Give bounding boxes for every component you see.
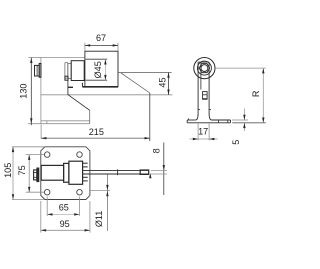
arrow 67 left xyxy=(85,44,90,46)
arrow o45 bottom xyxy=(104,75,106,80)
arrow 130 top xyxy=(30,58,32,63)
rod collar xyxy=(140,170,149,174)
gusset diagonal xyxy=(68,95,90,111)
dim 5 / R ext bottom xyxy=(232,122,266,124)
arrow 65 left xyxy=(47,213,52,215)
dim 75 ext top xyxy=(26,154,44,156)
dim 75 line xyxy=(28,155,30,193)
base end left xyxy=(186,120,188,123)
plate top edge xyxy=(41,56,85,58)
arm stub 4 xyxy=(83,180,88,182)
svg-text:8: 8 xyxy=(152,148,162,153)
arm stub 1 xyxy=(83,162,88,164)
dim o45 line xyxy=(104,59,106,80)
dim 215 line xyxy=(41,137,150,139)
dim 215/8 shared ext vertical xyxy=(149,93,151,141)
base top right xyxy=(212,119,231,121)
dim 8 line xyxy=(163,143,165,196)
arm edge b thick xyxy=(68,86,73,88)
flange side xyxy=(65,63,68,79)
dim 130 ext top xyxy=(28,56,41,58)
dim 5 ext top xyxy=(232,119,248,121)
dim 65 ext right xyxy=(79,197,81,216)
fork top chord xyxy=(198,61,209,63)
housing side xyxy=(85,51,118,87)
dim 5 line bottom xyxy=(243,123,245,131)
svg-text:65: 65 xyxy=(59,203,69,213)
base top xyxy=(41,120,90,122)
bolt head flat line 2 xyxy=(34,176,37,178)
dim R line xyxy=(262,68,264,123)
arrow 65 right xyxy=(74,213,79,215)
arrow 130 bottom xyxy=(30,118,32,123)
plate left edge xyxy=(40,57,42,123)
hole TR xyxy=(77,152,83,158)
arrow o11 down xyxy=(106,185,108,190)
dim 95 ext right xyxy=(89,201,91,233)
bolt head side xyxy=(35,65,40,76)
arrow 215 left xyxy=(41,137,46,139)
roller middle circle xyxy=(197,61,211,75)
svg-text:R: R xyxy=(251,90,261,97)
roller top view xyxy=(69,161,83,184)
dim 105 ext bottom xyxy=(12,199,44,201)
dim 215 ext left xyxy=(40,125,42,139)
dim 8 ext upper xyxy=(151,169,167,171)
base top left xyxy=(187,119,196,121)
arm vertical xyxy=(67,80,69,95)
arrow 95 left xyxy=(41,229,46,231)
arrow 45 bottom xyxy=(167,90,169,95)
svg-text:Ø45: Ø45 xyxy=(93,61,103,78)
washer side xyxy=(39,64,41,78)
dim 130 line xyxy=(30,58,32,126)
base end tick left xyxy=(188,118,190,120)
rod top line xyxy=(83,169,149,171)
dim 95 ext left xyxy=(40,201,42,233)
dim 17 line xyxy=(190,138,218,140)
dim 95 line xyxy=(41,229,90,231)
bolt head top view xyxy=(34,170,37,180)
tab side xyxy=(65,76,68,80)
dim o45 tick top xyxy=(86,58,108,60)
arrow 215 right xyxy=(145,137,150,139)
arrow 45 top xyxy=(167,73,169,78)
base hole tick xyxy=(46,121,48,124)
arrow 75 top xyxy=(28,155,30,160)
housing bottom thick xyxy=(82,86,118,88)
dim 67 line xyxy=(85,44,118,46)
dim 105 line xyxy=(12,147,14,200)
svg-text:5: 5 xyxy=(231,140,241,145)
dim 67 ext right xyxy=(117,43,119,51)
fillet tick right xyxy=(209,108,211,110)
fork inner line xyxy=(200,62,202,89)
mid flange top view xyxy=(64,163,69,182)
svg-text:215: 215 xyxy=(89,127,104,137)
svg-text:130: 130 xyxy=(18,84,28,99)
arrow 105 top xyxy=(12,147,14,152)
neck side xyxy=(68,63,71,78)
svg-text:95: 95 xyxy=(60,219,70,229)
svg-text:17: 17 xyxy=(198,127,208,137)
hole TL xyxy=(44,152,50,158)
svg-text:Ø11: Ø11 xyxy=(94,211,104,228)
arrow 105 bottom xyxy=(12,194,14,199)
dim 17 ext right xyxy=(208,124,210,141)
fillet right xyxy=(209,114,211,120)
roller inner circle xyxy=(201,65,208,72)
hole BL xyxy=(44,189,50,195)
dim 5 line top xyxy=(243,109,245,121)
roller outer circle xyxy=(194,58,215,79)
arm step vertical xyxy=(81,83,83,87)
hex bore xyxy=(199,64,209,73)
gusset right edge xyxy=(89,110,91,123)
base tick b xyxy=(227,120,229,123)
dim 65 line xyxy=(47,213,79,215)
arrow o11 up xyxy=(106,191,108,196)
arrow 95 right xyxy=(85,229,90,231)
dim 17 ext left xyxy=(197,124,199,141)
bolt head inner line xyxy=(36,65,38,76)
washer top view xyxy=(37,168,39,182)
svg-text:67: 67 xyxy=(96,33,106,43)
tube body top view xyxy=(41,165,63,180)
arrow 75 bottom xyxy=(28,187,30,192)
fork left edge xyxy=(197,62,199,114)
fillet tick left xyxy=(198,108,200,110)
hole BR xyxy=(77,189,83,195)
rod bent diagonal xyxy=(121,73,150,93)
arm stub 2 xyxy=(83,166,88,168)
base end right xyxy=(230,120,232,123)
plate outline xyxy=(41,147,90,200)
dim R ext top xyxy=(215,67,266,69)
arrow 5 top xyxy=(243,115,245,120)
clip bottom thick xyxy=(202,98,207,100)
dim 67 ext left xyxy=(84,43,86,51)
arrow R top xyxy=(262,68,264,73)
light axis line xyxy=(41,94,173,96)
base tick a xyxy=(217,120,219,123)
rod bottom line xyxy=(83,173,149,175)
dim 75 ext bottom xyxy=(26,191,44,193)
svg-text:45: 45 xyxy=(157,77,167,87)
clip rect xyxy=(203,92,208,99)
clip mid line xyxy=(203,94,208,96)
arrow 5 bottom xyxy=(243,123,245,128)
hub block side xyxy=(71,61,84,81)
svg-text:75: 75 xyxy=(17,165,27,175)
dim o45 tick bottom xyxy=(86,79,108,81)
arrow 8 bottom xyxy=(149,173,151,178)
base bottom xyxy=(28,123,90,125)
base bottom xyxy=(187,122,230,124)
dim 65 ext left xyxy=(46,197,48,216)
bolt head flat line 1 xyxy=(34,171,37,173)
fork right edge xyxy=(208,62,210,114)
dim o11 line xyxy=(106,175,108,232)
dim 45 ext top xyxy=(118,72,172,74)
dim 8 ext lower xyxy=(151,173,167,175)
dim 105 ext top xyxy=(12,146,44,148)
svg-text:105: 105 xyxy=(3,163,13,178)
arrow 8 top xyxy=(163,165,165,170)
arrow R bottom xyxy=(262,118,264,123)
dim 45 line xyxy=(168,73,170,95)
arrow 17 right xyxy=(209,138,214,140)
rod tick xyxy=(117,169,119,175)
fillet left xyxy=(196,114,198,120)
arrow 67 right xyxy=(113,44,118,46)
arrow 17 left xyxy=(193,138,198,140)
dim o11 light ext xyxy=(91,190,110,192)
arm stub 3 xyxy=(83,176,88,178)
arrow o45 top xyxy=(104,59,106,64)
